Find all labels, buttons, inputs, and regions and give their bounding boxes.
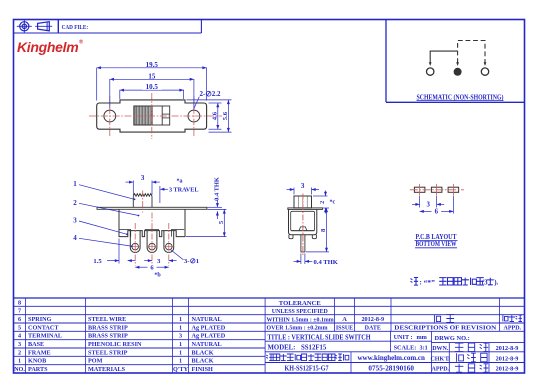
side view: flange <box>288 208 323 210</box>
item 1 leader (knob) <box>73 180 135 200</box>
svg-text:3:1: 3:1 <box>420 345 428 352</box>
svg-text:APPD.: APPD. <box>432 367 450 373</box>
item 2 leader (frame) <box>73 199 139 217</box>
front view: knob with serrated top <box>133 194 152 208</box>
dimension 3 (knob width) <box>126 174 160 195</box>
front view: metal frame flange <box>97 207 207 209</box>
svg-text:7: 7 <box>18 308 21 315</box>
svg-text:2012-8-9: 2012-8-9 <box>496 345 519 352</box>
svg-text:19.5: 19.5 <box>146 61 159 69</box>
pcb pad 2 <box>431 184 442 196</box>
svg-text:FINISH: FINISH <box>192 366 214 373</box>
svg-text:www.kinghelm.com.cn: www.kinghelm.com.cn <box>357 354 425 362</box>
svg-text:BLACK: BLACK <box>192 349 214 356</box>
svg-text:NATURAL: NATURAL <box>192 341 222 348</box>
dimension 1.5 <box>93 239 135 266</box>
schematic caption <box>417 92 504 101</box>
svg-text:BRASS STRIP: BRASS STRIP <box>88 333 128 340</box>
svg-text:0.4 THK: 0.4 THK <box>213 177 220 201</box>
top view: knob (hatched) <box>134 106 152 125</box>
title block table grid <box>14 298 525 365</box>
svg-text:BASE: BASE <box>28 341 44 348</box>
company row <box>266 353 518 362</box>
svg-text:“*”: “*” <box>424 278 436 287</box>
svg-text:5.6: 5.6 <box>222 111 229 120</box>
front view: terminal 2 centerline <box>151 223 153 266</box>
svg-text:Kinghelm: Kinghelm <box>17 39 78 55</box>
svg-text:MATERIALS: MATERIALS <box>88 366 126 373</box>
svg-text:4: 4 <box>73 234 77 242</box>
dimension 8 (overall height) <box>306 208 329 252</box>
svg-text:DWN.: DWN. <box>432 346 449 352</box>
schematic terminal 2 (common, filled) <box>454 68 462 76</box>
svg-text:10.5: 10.5 <box>146 83 159 91</box>
top view: horizontal centerline <box>89 115 222 117</box>
part number row <box>285 364 519 373</box>
schematic box <box>386 20 525 103</box>
dimension 4.6 <box>209 103 222 129</box>
svg-text:2: 2 <box>73 199 77 207</box>
svg-text:UNLESS SPECIFIED: UNLESS SPECIFIED <box>272 308 328 315</box>
first-angle projection cone symbol <box>35 22 52 31</box>
svg-text:PARTS: PARTS <box>28 366 48 373</box>
BOM rows text <box>14 299 226 373</box>
item 4 leader (terminal) <box>73 234 132 247</box>
svg-text:SCALE:: SCALE: <box>394 345 417 352</box>
front view: terminal 3 <box>164 231 174 253</box>
svg-text:TITLE : VERTICAL SLIDE SWITCH: TITLE : VERTICAL SLIDE SWITCH <box>268 332 371 341</box>
wire solid position <box>429 51 458 66</box>
svg-text:WITHIN 1.5mm : ±0.1mm: WITHIN 1.5mm : ±0.1mm <box>267 317 334 323</box>
svg-text:TERMINAL: TERMINAL <box>28 333 62 340</box>
svg-text:1: 1 <box>73 180 77 188</box>
svg-text:*b: *b <box>154 272 161 278</box>
svg-text:KNOB: KNOB <box>28 358 46 365</box>
item 3 leader (base) <box>73 217 128 236</box>
front view: terminal 2 <box>147 231 157 253</box>
side view: right foot <box>312 235 316 239</box>
svg-text:POM: POM <box>88 358 103 365</box>
side view: left foot <box>289 235 293 239</box>
svg-text:0755-28190160: 0755-28190160 <box>368 365 414 373</box>
pcb horizontal centerline <box>410 189 464 191</box>
front view: terminal 3 centerline <box>168 223 170 266</box>
wire dashed alternate position <box>456 41 486 67</box>
svg-text:APPD.: APPD. <box>504 326 522 332</box>
svg-text:1: 1 <box>179 316 182 323</box>
dimension 3 (side knob) <box>287 182 320 195</box>
svg-text:15: 15 <box>148 72 156 80</box>
side view: centerline <box>302 194 304 256</box>
front view: base interior bottom steps <box>119 229 184 236</box>
svg-text:KH-SS12F15-G7: KH-SS12F15-G7 <box>285 365 329 373</box>
svg-text:mm: mm <box>417 334 428 341</box>
Kinghelm logo <box>17 39 83 56</box>
svg-text:1: 1 <box>196 258 199 265</box>
label 2-phi2.2 with leader <box>194 90 222 109</box>
svg-text:1: 1 <box>179 349 182 356</box>
svg-text:6: 6 <box>435 209 439 216</box>
dimension 5 (body height) <box>186 209 227 236</box>
svg-text:DATE: DATE <box>365 326 381 332</box>
svg-text:SCHEMATIC (NON-SHORTING): SCHEMATIC (NON-SHORTING) <box>417 92 504 101</box>
top view: switch body outline <box>97 100 207 132</box>
svg-text:BOTTOM VIEW: BOTTOM VIEW <box>416 240 457 248</box>
top view: left hole centerline <box>109 96 111 136</box>
svg-text:UNIT :: UNIT : <box>394 334 413 341</box>
svg-text:FRAME: FRAME <box>28 349 51 356</box>
svg-text:1: 1 <box>179 324 182 331</box>
svg-text:2-: 2- <box>200 90 207 98</box>
revision row <box>336 315 522 332</box>
svg-text:Ag PLATED: Ag PLATED <box>192 324 226 331</box>
svg-text:).: ). <box>494 278 498 286</box>
svg-text:OVER 1.5mm : ±0.2mm: OVER 1.5mm : ±0.2mm <box>267 326 328 332</box>
svg-text:®: ® <box>79 39 83 46</box>
svg-text:TOLERANCE: TOLERANCE <box>279 300 321 307</box>
dimension 10.5 <box>120 82 184 99</box>
side view: knob <box>294 196 312 208</box>
svg-text:NATURAL: NATURAL <box>192 316 222 323</box>
svg-text:3: 3 <box>18 341 21 348</box>
svg-text:5: 5 <box>18 324 21 331</box>
label 3-phi1 with leader <box>171 250 199 265</box>
svg-text:3: 3 <box>73 217 77 225</box>
svg-text:3-: 3- <box>184 258 190 265</box>
svg-text:A: A <box>342 316 347 323</box>
svg-text:SS12F15: SS12F15 <box>301 345 327 352</box>
svg-text:2: 2 <box>18 349 21 356</box>
svg-text:4: 4 <box>18 333 21 340</box>
first-angle projection target symbol <box>17 20 32 33</box>
svg-text:6: 6 <box>18 316 21 323</box>
svg-text:3: 3 <box>426 202 430 209</box>
svg-text:PHENOLIC RESIN: PHENOLIC RESIN <box>88 341 142 348</box>
svg-text:1: 1 <box>18 358 21 365</box>
svg-text:CHK'D: CHK'D <box>430 356 450 362</box>
front view: switch base body <box>119 209 185 236</box>
svg-text:CONTACT: CONTACT <box>28 324 59 331</box>
svg-text:*a: *a <box>177 179 183 185</box>
top view: knob window <box>134 106 170 125</box>
front view: knob centerline <box>142 191 144 213</box>
svg-text:STEEL WIRE: STEEL WIRE <box>88 316 126 323</box>
svg-text:CAD FILE:: CAD FILE: <box>62 24 89 31</box>
top view: body centerline <box>151 93 153 139</box>
svg-text:0.4 THK: 0.4 THK <box>314 259 339 266</box>
top view: right hole centerline <box>193 96 195 136</box>
svg-text:2012-8-9: 2012-8-9 <box>361 316 384 323</box>
dimension 6 <box>135 265 169 279</box>
dimension 2 *c (knob height) <box>313 191 336 214</box>
dimension 19.5 <box>97 60 207 100</box>
svg-text:1: 1 <box>179 358 182 365</box>
svg-text::: : <box>420 278 422 286</box>
svg-text:NO.: NO. <box>14 366 25 373</box>
svg-text:MODEL:: MODEL: <box>268 345 296 352</box>
svg-text:SPRING: SPRING <box>28 316 52 323</box>
svg-text:Q'TY: Q'TY <box>173 366 189 373</box>
front view: terminal 1 centerline <box>134 223 136 266</box>
pcb dimension 3 <box>412 196 444 209</box>
title row <box>268 332 470 342</box>
svg-text:DESCRIPTIONS OF REVISION: DESCRIPTIONS OF REVISION <box>394 325 497 332</box>
schematic terminal 3 (right, open) <box>481 68 488 75</box>
top view: mounting hole left <box>104 110 116 122</box>
svg-text:2.2: 2.2 <box>212 90 221 98</box>
note: key dimensions <box>411 278 499 287</box>
svg-text:2012-8-9: 2012-8-9 <box>496 366 519 373</box>
svg-text:BRASS STRIP: BRASS STRIP <box>88 324 128 331</box>
side view: body <box>289 209 317 234</box>
svg-text:3: 3 <box>301 182 305 190</box>
svg-text:8: 8 <box>18 299 21 306</box>
dimension 3 TRAVEL <box>160 179 199 204</box>
side view: terminal <box>301 235 305 252</box>
svg-text:1: 1 <box>179 341 182 348</box>
pcb dimension 6 <box>420 196 454 216</box>
svg-text:3 TRAVEL: 3 TRAVEL <box>169 186 199 193</box>
svg-text:3: 3 <box>179 333 182 340</box>
pcb caption <box>415 233 458 248</box>
front view: body centerline <box>151 213 153 223</box>
front view: terminal 1 <box>130 231 140 253</box>
top view: contact window detail <box>162 106 170 125</box>
side view: inner frame <box>291 211 315 230</box>
svg-text:*c: *c <box>330 200 336 206</box>
svg-text:2: 2 <box>319 201 326 204</box>
title strip with projection symbols and CAD FILE cell <box>14 20 202 34</box>
svg-text:1.5: 1.5 <box>93 258 102 265</box>
pcb pad 3 <box>448 184 459 196</box>
svg-text:BLACK: BLACK <box>192 358 214 365</box>
dimension 3 (terminal pitch) <box>144 258 176 265</box>
top view: mounting hole right <box>188 110 200 122</box>
svg-text:STEEL STRIP: STEEL STRIP <box>88 349 128 356</box>
pcb pad 1 <box>414 184 425 196</box>
dimension 15 <box>110 72 194 108</box>
svg-text:ISSUE: ISSUE <box>336 326 353 332</box>
svg-text:3: 3 <box>141 174 145 182</box>
model row <box>268 343 519 352</box>
svg-text:4.6: 4.6 <box>211 111 218 120</box>
tolerance block text <box>267 300 334 332</box>
svg-text:Ag PLATED: Ag PLATED <box>192 333 226 340</box>
dimension 0.4 THK (terminal) <box>294 254 339 266</box>
dimension 0.4 THK (frame) <box>208 177 223 219</box>
schematic terminal 1 (left, open) <box>427 68 434 75</box>
svg-text:DRWG NO.:: DRWG NO.: <box>435 335 470 342</box>
svg-text:2012-8-9: 2012-8-9 <box>496 355 519 362</box>
dimension 5.6 <box>187 100 232 132</box>
